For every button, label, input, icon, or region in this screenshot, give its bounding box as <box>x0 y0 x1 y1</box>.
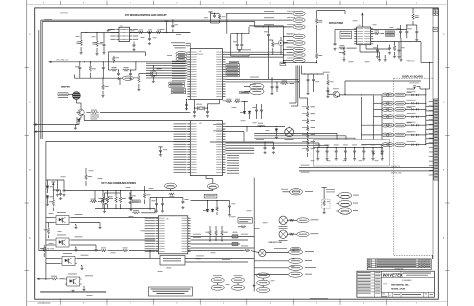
sheet wire to title <box>431 255 433 259</box>
svg-text:TITLE: TITLE <box>383 283 387 285</box>
capacitor C61 <box>63 188 66 192</box>
net name smudges top buses <box>264 10 274 13</box>
capacitor C72 <box>326 89 329 93</box>
capacitor C33 <box>415 30 418 34</box>
ground loop caps <box>237 49 242 51</box>
wire mid current path <box>226 126 286 128</box>
svg-text:BRYMANTEL VAL: BRYMANTEL VAL <box>391 284 409 287</box>
svg-text:ST7 MICROCONTROLLER CIRCUIT: ST7 MICROCONTROLLER CIRCUIT <box>125 13 167 17</box>
transistor Q1 <box>76 109 84 115</box>
ground below C1 <box>102 52 105 55</box>
display rows left wires <box>374 94 382 96</box>
opto isolator U10 <box>65 277 82 286</box>
opto U8 left wires <box>46 239 54 241</box>
crystal wires to U1 <box>194 100 196 109</box>
oval net USB left <box>165 183 177 189</box>
revision table <box>367 259 431 270</box>
resistor R9 in sub-box <box>112 56 115 62</box>
wire x268 vertical <box>268 40 270 78</box>
inner border line right <box>432 8 434 259</box>
crystal load capacitor C5 <box>193 110 196 114</box>
U1 pin1 hang parts <box>186 100 188 111</box>
opto wires right <box>71 217 158 219</box>
net label oval stack <box>293 11 305 16</box>
net label box USB <box>132 200 140 203</box>
svg-text:SIZE: SIZE <box>382 293 385 295</box>
svg-text:USB-B: USB-B <box>166 268 172 270</box>
display ground bottom <box>380 152 383 155</box>
beeper BZ1 <box>73 92 81 100</box>
resistor pair R63 R64 <box>115 196 118 203</box>
transistor Q3 display driver <box>332 91 340 97</box>
resistor R6 <box>138 76 141 83</box>
resistor R30 <box>226 100 232 103</box>
oval stack feed wires <box>283 36 285 62</box>
wire USB_PWR_GND run <box>34 131 37 133</box>
wire cluster2 drop <box>135 62 137 70</box>
resistor R65 below y78 <box>102 84 105 90</box>
current jack J2 <box>285 128 294 137</box>
capacitor C64 <box>161 202 164 206</box>
resistor R3 horizontal chain <box>138 31 144 34</box>
diode D20 <box>206 209 209 213</box>
resistor R4 to Q1 base <box>90 111 99 114</box>
svg-text:U5: U5 <box>166 219 168 221</box>
reference chain ground <box>323 208 325 211</box>
net name smudges usb right <box>193 233 201 236</box>
wire loop rect <box>231 33 249 35</box>
wire y25.9 top <box>249 25 284 27</box>
svg-text:SCHEMATIC: SCHEMATIC <box>402 279 413 282</box>
oval triple C <box>257 273 270 278</box>
ground opto U7 <box>74 226 77 229</box>
wire net bus y20 <box>41 19 292 21</box>
connector stub wires <box>426 105 434 107</box>
capacitor C9 <box>236 43 239 47</box>
wire oval bus down <box>284 62 317 64</box>
capacitor C65 <box>181 200 184 204</box>
ground below R2 <box>95 53 98 56</box>
border zone row letters <box>25 67 29 69</box>
resistor R26 pwm left <box>343 51 346 56</box>
capacitor C35 pwm <box>398 48 401 52</box>
U1 right label boxes <box>226 64 240 66</box>
ground below R1 <box>80 52 83 55</box>
attenuator divider chain R40-R46 <box>306 105 309 110</box>
title block bottom strip <box>381 291 434 293</box>
PWM controller U6 <box>357 27 371 45</box>
resistor R66 below rail <box>169 193 175 196</box>
resistor R21 <box>375 30 380 33</box>
jack J6 <box>279 230 287 238</box>
resistor R50 <box>85 174 88 180</box>
transistor Q2 <box>149 70 157 76</box>
svg-text:WΛVETEK: WΛVETEK <box>383 273 404 278</box>
capacitor C42 <box>264 146 267 150</box>
svg-text:U6: U6 <box>359 25 361 27</box>
ferrite bead FB4 <box>232 242 238 245</box>
resistor R23 <box>393 45 396 51</box>
wire x316 mid <box>316 25 318 53</box>
svg-text:BEEPER: BEEPER <box>61 86 70 88</box>
crystal load capacitor C6 <box>206 110 209 114</box>
wire top to PWM <box>317 10 345 12</box>
microcontroller U1 <box>190 49 222 100</box>
capacitor C31 <box>405 30 408 34</box>
wire PWM bottom <box>359 45 361 52</box>
wire U2 to rail <box>108 28 114 30</box>
ground below Q1 <box>74 127 77 130</box>
U3 right wires <box>226 142 255 144</box>
capacitor C62 <box>129 196 132 200</box>
interface IC U3 <box>190 121 222 176</box>
oval pair A <box>211 278 224 283</box>
reference chain T top <box>322 187 327 189</box>
diode D22 <box>130 197 133 201</box>
wires below cap row <box>299 167 434 169</box>
opto isolator U8 <box>54 238 71 247</box>
resistor R31 <box>234 100 240 103</box>
beeper net labels <box>58 93 68 96</box>
cap row box <box>314 140 390 167</box>
capacitor C12 <box>271 85 274 89</box>
reference box with resistor <box>322 199 330 208</box>
resistor R60 <box>209 230 212 236</box>
resistor R55 <box>43 246 46 252</box>
wires PWM left <box>342 29 357 31</box>
display board dashed box <box>394 78 433 255</box>
attenuator taps <box>307 111 308 112</box>
VCC arrow USB <box>52 182 54 185</box>
oval net VAL_CT <box>290 189 303 195</box>
wire y78 run <box>75 77 120 79</box>
crystal Y1 <box>199 107 203 109</box>
U3 left net label texts <box>174 123 187 126</box>
resistor R24 top right <box>412 8 414 13</box>
zener diode Z1 <box>46 185 49 189</box>
ground opto U8 <box>74 249 77 252</box>
oval net J6 <box>287 233 297 235</box>
svg-text:ST7 USB COMMUNICATIONS: ST7 USB COMMUNICATIONS <box>101 181 136 185</box>
capacitor C67 usb-left <box>158 146 162 148</box>
VCC bar C4 <box>164 20 168 22</box>
opto U10 grounds <box>71 290 74 293</box>
capacitor C66 <box>59 192 62 196</box>
cap row grounds <box>317 152 319 158</box>
capacitor C60 <box>56 188 59 192</box>
capacitor C34 pwm <box>376 48 379 52</box>
wire lcd tap <box>301 73 324 75</box>
resistor R1 <box>80 39 83 46</box>
USB-B connector J4 <box>160 256 185 266</box>
U1 left lower label boxes <box>169 82 185 84</box>
capacitor C30 <box>399 30 402 34</box>
resistor R25 pwm left <box>339 47 346 50</box>
inductor FB2 <box>258 125 265 126</box>
opto right stub labels <box>75 213 83 216</box>
svg-text:OSC_XTAL_CLK: OSC_XTAL_CLK <box>56 59 69 62</box>
isolation note text <box>40 291 106 292</box>
VCC arrow at PWM <box>361 12 363 15</box>
capacitor C7 below xtal wire <box>78 66 81 70</box>
border zone tick marks and column numbers <box>59 1 61 5</box>
wire net VDD top bus <box>227 13 292 15</box>
net name smudges U1 right <box>242 49 251 52</box>
capacitor C2 at U2 <box>133 43 136 47</box>
wire PWM out right <box>371 41 421 43</box>
net name smudges mid <box>213 123 223 126</box>
opto isolator U7 <box>54 216 71 225</box>
wire Q1 collector run <box>84 120 190 122</box>
resistor R2 <box>96 40 99 47</box>
wire net bus y21.5 <box>42 21 255 23</box>
wire top rail <box>81 31 190 33</box>
sheet outer edge <box>26 0 28 306</box>
resistor R54 <box>47 227 50 234</box>
resistor R22 label pair <box>386 31 395 33</box>
bottom sheet note <box>310 297 328 300</box>
ground cluster under PWM <box>378 59 381 62</box>
USB-B wires <box>150 257 160 259</box>
resistor R57 <box>52 199 55 206</box>
wire USB mid rail <box>95 208 155 210</box>
U1 right bus wires <box>226 51 284 53</box>
capacitor C8 below xtal wire <box>102 66 105 70</box>
USB controller U5 <box>158 216 187 254</box>
opto isolator U9 <box>60 256 77 265</box>
RC cluster 2 capacitor Ca <box>117 72 120 76</box>
svg-text:On/Off Switch: On/Off Switch <box>409 82 419 85</box>
net label box lcd <box>280 62 286 65</box>
wire beeper to transistor <box>75 100 77 104</box>
wire left vertical bus <box>38 30 40 251</box>
diode D21 <box>211 209 214 213</box>
svg-text:U2: U2 <box>120 25 122 27</box>
oscillator sub-box <box>108 51 145 53</box>
svg-text:USB B4-TO-USB: USB B4-TO-USB <box>268 241 282 244</box>
resistor R5 below xtal wire <box>89 65 92 72</box>
small reference box right edge <box>433 27 438 31</box>
title block grid <box>357 271 435 297</box>
wire Q2 collector up <box>152 66 154 71</box>
U1 left net label texts <box>172 60 186 63</box>
svg-text:REV: REV <box>425 294 428 296</box>
capacitor C63 <box>155 202 158 206</box>
capacitor C3 <box>148 37 151 41</box>
wire XTAL run with off-page arrow <box>48 61 51 63</box>
diode D10 <box>243 111 246 115</box>
sheet corner note <box>38 302 51 305</box>
wire USB upper rail <box>64 190 213 192</box>
jack J7 <box>244 249 250 252</box>
ground opto U9 <box>80 267 83 270</box>
capacitor C71 <box>312 78 315 82</box>
capacitor C40 <box>255 108 258 112</box>
junction dots mid <box>283 62 284 63</box>
resistor R10 <box>316 11 318 18</box>
capacitor C32 <box>388 46 391 50</box>
svg-text:ST72F623: ST72F623 <box>196 54 203 56</box>
resistor R56 with arrow <box>36 278 39 280</box>
net label box on wire <box>229 61 238 64</box>
opto U7 left wires <box>46 217 54 219</box>
net label box below rail <box>204 194 217 198</box>
U1 top-left bus labels <box>171 41 185 44</box>
display right bus <box>425 89 427 145</box>
diode D11 <box>248 111 251 115</box>
net label box B <box>240 91 249 94</box>
note box <box>148 287 192 296</box>
resistor R7 <box>271 42 274 48</box>
wire PWM top right <box>371 29 407 31</box>
wire mid lower <box>246 127 248 132</box>
resistor R11 <box>315 53 318 59</box>
oval net J5 <box>287 219 297 221</box>
resistor R53 <box>132 212 140 215</box>
capacitor C43 <box>272 146 275 150</box>
oval net right trio <box>338 192 351 198</box>
capacitor C11 <box>267 33 270 37</box>
oval net bottom cluster <box>266 251 288 253</box>
VCC bar cluster above U1 <box>208 11 212 13</box>
wire off-page arrow PANEL <box>33 123 36 125</box>
edge connector J3 <box>434 99 438 180</box>
resistor R51 <box>90 200 97 203</box>
title block company lines <box>403 272 431 275</box>
wire zener rail <box>46 179 64 181</box>
U1 left net label ovals <box>176 52 187 56</box>
on/off pushbutton SW1 <box>407 88 415 90</box>
LED D2 <box>278 40 283 45</box>
display board button rows <box>382 93 389 97</box>
resistor R61 <box>215 230 218 236</box>
op-amp supervisor U2 <box>119 27 130 41</box>
oval large pair <box>250 83 264 90</box>
capacitor C70 <box>307 78 310 82</box>
capacitor C1 <box>103 43 106 47</box>
net label box usb right <box>238 218 253 224</box>
resistor R62 <box>221 230 224 236</box>
USB section boundary wires <box>46 140 190 142</box>
svg-text:38704 PWM: 38704 PWM <box>329 21 343 25</box>
capacitor C41 <box>260 108 263 112</box>
capacitor C13 <box>276 85 279 89</box>
oval pair B <box>231 278 244 283</box>
net name smudges left bus <box>44 18 52 21</box>
jack J5 <box>279 216 287 224</box>
net label box PWM left <box>340 31 352 39</box>
resistor R67 <box>327 80 330 86</box>
sheet number box top-right corner <box>433 9 438 16</box>
ferrite bead FB3 <box>232 235 238 238</box>
wire usb top right rail <box>191 200 230 202</box>
capacitor C4 <box>171 24 174 28</box>
transistor Q5 <box>100 198 108 204</box>
RC cluster 2 capacitor Cb <box>129 72 132 76</box>
assorted reference designator labels <box>76 35 80 38</box>
U1 left wires <box>146 62 187 64</box>
wire attenuator top <box>300 97 308 99</box>
opto U9 left wires <box>46 257 60 259</box>
wire cap row feed <box>314 147 318 149</box>
svg-text:MODEL 37650: MODEL 37650 <box>391 289 406 291</box>
wire bundle from ovals <box>295 66 297 104</box>
resistor R8 <box>280 82 288 85</box>
svg-text:REVISIONS: REVISIONS <box>395 269 405 271</box>
oval net at y78 <box>123 76 134 80</box>
resistor R52 <box>143 193 146 199</box>
wire into MCU left <box>163 31 190 33</box>
capacitor C73 <box>228 204 231 208</box>
diode D12 <box>275 128 278 132</box>
wire above U5 <box>150 197 183 199</box>
resistor pair R58 R59 <box>102 196 105 203</box>
diode D1 at Q1 <box>78 119 81 123</box>
RC cluster 2 resistor Rb <box>123 69 130 72</box>
USB data wires <box>191 236 255 238</box>
wires pwm to rows <box>344 81 346 94</box>
wire Q3 to display row <box>339 94 373 96</box>
wire Q5 collector <box>104 193 106 198</box>
svg-text:PWM_OUT: PWM_OUT <box>407 60 415 62</box>
RC cluster 2 resistor Ra <box>111 69 118 72</box>
oval net USB right <box>207 184 218 190</box>
zener diode Z2 <box>46 195 49 199</box>
capacitor C10 <box>240 43 243 47</box>
U3 bottom wire <box>205 176 207 179</box>
decoupling capacitor row C50-C57 <box>318 147 382 149</box>
